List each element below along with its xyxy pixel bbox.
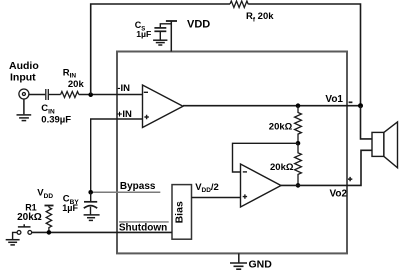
- wire Vo1 (U1 output): [183, 105, 361, 107]
- wire VDD/2: [192, 197, 241, 199]
- capacitor C_BY: [90, 192, 92, 201]
- svg-text:GND: GND: [249, 259, 273, 271]
- minus sign at speaker: [349, 101, 353, 103]
- U1 minus marker: [144, 91, 148, 93]
- svg-text:20kΩ: 20kΩ: [17, 212, 42, 223]
- svg-text:Rf 20k: Rf 20k: [246, 11, 274, 23]
- node middle of resistor chain: [296, 141, 301, 146]
- wire Vo2 (U2 output): [281, 150, 372, 185]
- wire R_IN to -IN: [79, 94, 143, 96]
- speaker LS1: [372, 122, 398, 168]
- U2 minus marker: [243, 171, 247, 173]
- svg-text:VDD: VDD: [187, 19, 210, 31]
- node input junction: [88, 92, 93, 97]
- wire C_IN to R_IN: [49, 94, 61, 96]
- svg-text:Audio: Audio: [9, 60, 39, 72]
- label C_S 1uF: [135, 20, 152, 39]
- wire U2 feedback: [233, 143, 299, 172]
- capacitor C_IN: [46, 89, 49, 100]
- node Vo1/R chain: [296, 103, 301, 108]
- U2 plus marker: [243, 194, 247, 198]
- label Audio Input: [9, 60, 39, 84]
- wire jack to C_IN: [29, 94, 45, 96]
- resistor R_IN: [61, 92, 79, 98]
- GND terminal: [238, 253, 240, 262]
- wire Shutdown: [32, 231, 172, 233]
- resistor Rf: [230, 1, 248, 8]
- audio input jack J1: [19, 89, 29, 99]
- svg-text:20kΩ: 20kΩ: [270, 162, 294, 173]
- op-amp U1: [143, 85, 184, 128]
- capacitor C_S: [154, 28, 166, 31]
- resistor R1: [46, 207, 51, 232]
- VDD terminal bar (R1): [45, 205, 54, 207]
- svg-text:Bias: Bias: [174, 201, 186, 223]
- ground (switch): [6, 240, 20, 245]
- node Vo2/R chain: [296, 183, 301, 188]
- wire Bypass: [91, 191, 161, 193]
- ground (audio input): [17, 99, 32, 121]
- wire C_S to ground: [159, 31, 161, 40]
- label R1 20kOhm: [17, 203, 42, 223]
- wire +IN stub: [91, 119, 143, 192]
- wire switch to ground: [13, 232, 18, 239]
- plus sign at speaker: [348, 177, 352, 181]
- svg-text:20k: 20k: [68, 79, 85, 90]
- switch S1: [17, 231, 32, 235]
- wire feedback top: [91, 4, 230, 95]
- node shutdown junction: [47, 230, 52, 235]
- label C_IN 0.39uF: [41, 103, 71, 125]
- label C_BY 1uF: [62, 194, 79, 214]
- label Shutdown with overline: [119, 221, 169, 223]
- wire VDD to C_S: [160, 24, 171, 28]
- node bypass junction: [88, 190, 93, 195]
- wire Rf to Vo1 terminal: [248, 4, 360, 106]
- svg-text:20kΩ: 20kΩ: [269, 121, 293, 132]
- wire Vo1 to speaker: [361, 106, 373, 139]
- bias block: [172, 185, 192, 240]
- svg-text:Bypass: Bypass: [120, 181, 156, 192]
- resistor 20k lower: [295, 143, 302, 185]
- node Vo1 terminal: [358, 103, 363, 108]
- svg-text:Vo1: Vo1: [325, 94, 343, 105]
- VDD terminal: [166, 21, 177, 52]
- ground (C_S): [153, 40, 167, 45]
- label R_IN 20k: [63, 67, 85, 90]
- svg-text:1µF: 1µF: [62, 203, 78, 213]
- IC boundary box: [117, 52, 347, 254]
- ground (C_BY): [84, 215, 100, 221]
- resistor 20k upper: [295, 106, 302, 144]
- svg-text:Vo2: Vo2: [330, 189, 348, 200]
- svg-text:Input: Input: [10, 72, 36, 84]
- op-amp U2: [241, 164, 282, 207]
- svg-text:0.39µF: 0.39µF: [41, 114, 71, 125]
- U1 plus marker: [144, 115, 148, 119]
- ground (GND): [230, 263, 247, 269]
- svg-text:1µF: 1µF: [136, 29, 151, 39]
- svg-text:-IN: -IN: [117, 83, 130, 94]
